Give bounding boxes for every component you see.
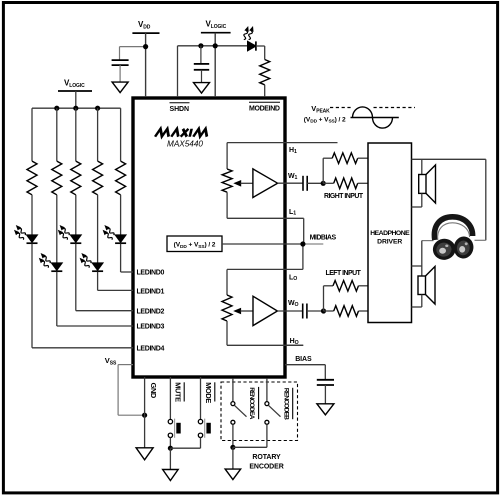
svg-text:RIGHT INPUT: RIGHT INPUT (324, 193, 364, 200)
svg-text:H1: H1 (289, 147, 297, 155)
svg-text:MIDBIAS: MIDBIAS (310, 234, 337, 241)
svg-text:LEFT INPUT: LEFT INPUT (326, 270, 362, 277)
svg-text:L1: L1 (289, 209, 296, 217)
svg-text:LEDIND0: LEDIND0 (137, 269, 165, 276)
svg-text:DRIVER: DRIVER (377, 238, 402, 245)
svg-text:MUTE: MUTE (173, 382, 182, 402)
svg-text:(VDD + VSS) / 2: (VDD + VSS) / 2 (304, 116, 346, 124)
svg-text:LEDIND1: LEDIND1 (137, 289, 165, 296)
svg-text:RENCODEA: RENCODEA (248, 387, 255, 419)
svg-text:LEDIND3: LEDIND3 (137, 324, 165, 331)
svg-text:MAX5440: MAX5440 (167, 140, 203, 149)
svg-text:LO: LO (289, 274, 297, 282)
svg-text:RENCODEB: RENCODEB (282, 388, 289, 420)
svg-text:BIAS: BIAS (295, 356, 312, 363)
svg-text:SHDN: SHDN (170, 106, 189, 113)
svg-text:LEDIND4: LEDIND4 (137, 346, 165, 353)
svg-text:LEDIND2: LEDIND2 (137, 308, 165, 315)
svg-text:ROTARY: ROTARY (252, 454, 281, 461)
svg-text:GND: GND (149, 383, 158, 399)
svg-text:W1: W1 (288, 173, 298, 181)
svg-text:HEADPHONE: HEADPHONE (370, 230, 410, 237)
svg-text:WO: WO (288, 300, 299, 308)
svg-text:ENCODER: ENCODER (249, 463, 283, 470)
svg-text:MODE: MODE (204, 382, 213, 403)
svg-text:MODEIND: MODEIND (249, 105, 280, 112)
svg-text:(VDD + VSS) / 2: (VDD + VSS) / 2 (174, 242, 216, 250)
